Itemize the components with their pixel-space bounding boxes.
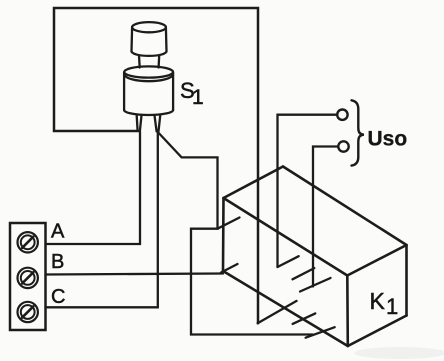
edge B-E — [222, 198, 225, 271]
wire from S1 right pin jog down into relay bottom — [158, 132, 313, 335]
body sides — [123, 72, 125, 110]
svg-text:1: 1 — [386, 294, 398, 319]
cap sides — [130, 28, 133, 52]
right pin — [155, 116, 157, 131]
edge E-F — [223, 271, 348, 346]
cap bottom arc — [132, 51, 167, 56]
edge D-F — [346, 276, 349, 347]
left pin — [136, 116, 139, 131]
Uso terminal circle lower — [338, 141, 348, 151]
body rim arc — [124, 75, 172, 81]
screw C — [18, 302, 38, 322]
wire B: terminal B into relay corner — [46, 274, 224, 275]
edge B-A — [224, 167, 284, 199]
wire C: terminal C up to S1 right pin — [46, 132, 158, 307]
cap top ellipse — [132, 22, 166, 32]
lug at bottom wire end — [306, 327, 335, 338]
middle lug on bottom edge — [293, 313, 316, 324]
svg-text:C: C — [51, 286, 65, 308]
svg-text:1: 1 — [192, 86, 204, 109]
svg-text:K: K — [370, 288, 386, 314]
svg-text:Uso: Uso — [368, 128, 408, 151]
edge B-D — [224, 198, 348, 276]
terminal strip — [10, 223, 46, 330]
lug at end of loop wire inside K1 — [258, 301, 297, 323]
lug at upper Uso wire end — [278, 256, 299, 267]
svg-text:B: B — [51, 251, 64, 273]
wire upper Uso terminal to relay — [278, 115, 338, 267]
neck sides — [138, 56, 141, 68]
faint smudge bottom right — [354, 347, 444, 359]
Uso terminal circle upper — [337, 110, 347, 120]
screw A — [18, 232, 38, 252]
lug at wire B end — [221, 264, 238, 273]
wire lower Uso terminal to relay — [313, 147, 338, 287]
edge C-G — [405, 245, 408, 316]
pushbutton S1 — [124, 22, 173, 131]
body top ellipse — [124, 66, 173, 77]
wire A: terminal A to S1 left pin — [46, 132, 141, 245]
wire loop from S1 left pin up over the top and down into relay — [54, 8, 258, 323]
edge C-D — [347, 245, 406, 276]
brace for Uso — [352, 100, 365, 165]
lug on lower Uso wire — [293, 268, 315, 279]
body bottom arc — [124, 110, 173, 115]
svg-text:A: A — [51, 221, 65, 243]
screw B — [18, 268, 38, 288]
lug at lower Uso wire end — [300, 278, 331, 292]
lug at jog corner — [218, 218, 240, 229]
relay K1 box — [223, 167, 407, 347]
edge F-G — [348, 316, 407, 347]
edge A-C — [283, 167, 407, 246]
